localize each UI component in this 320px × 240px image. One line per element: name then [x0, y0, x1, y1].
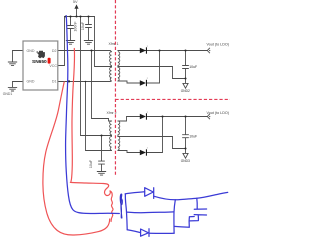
svg-text:Xfmr 1: Xfmr 1: [109, 42, 119, 46]
transformer Xfmr2: [110, 121, 120, 150]
svg-text:SN650: SN650: [32, 59, 47, 65]
wire sketch small box: [174, 217, 194, 228]
capacitor C3 10uF at Xfmr2 center tap: [97, 136, 105, 176]
TI logo: [37, 51, 45, 59]
wire Xfmr2 sec center tap to GND3 node: [118, 137, 186, 149]
svg-text:5V: 5V: [73, 0, 78, 4]
capacitor sketch C6: [190, 198, 207, 221]
svg-text:GND: GND: [27, 79, 35, 83]
svg-text:D2: D2: [52, 49, 57, 53]
wire 5V bus: [65, 16, 95, 18]
diode sketch D8: [141, 229, 149, 237]
svg-text:VCC: VCC: [49, 64, 57, 68]
wire sketch left vertical: [125, 194, 127, 230]
ground GND2 arrow: [183, 79, 188, 89]
terminal Vout1: [207, 48, 209, 53]
svg-text:10uF: 10uF: [89, 159, 93, 168]
junction dots primary side: [65, 15, 103, 136]
wire Xfmr2 sec top to Vout: [118, 117, 207, 122]
wire sketch middle horizontal right part: [127, 211, 174, 214]
svg-text:GND3: GND3: [181, 159, 190, 163]
secondary section 1: [118, 48, 210, 88]
ground GND3 arrow: [183, 149, 188, 159]
svg-text:GND2: GND2: [181, 89, 190, 93]
secondary section 2: [118, 114, 210, 158]
svg-text:10uF: 10uF: [189, 65, 197, 69]
wire sketch top: [125, 192, 145, 194]
wire sketch top right: [154, 192, 228, 199]
svg-text:GND: GND: [27, 49, 35, 53]
diode D5: [140, 113, 147, 119]
svg-text:100nF: 100nF: [74, 21, 78, 32]
svg-text:D1: D1: [52, 79, 57, 83]
diode sketch D7: [145, 188, 154, 199]
blue annotation end scribble: [120, 194, 122, 218]
transformer Xfmr1: [110, 52, 120, 81]
wire D2 branch down to Xfmr2 primary top: [92, 51, 112, 122]
svg-text:10uF: 10uF: [81, 21, 85, 30]
capacitor C2 10uF input: [84, 17, 92, 45]
wire bus to Xfmr1 primary center tap: [95, 17, 112, 67]
capacitor C1 100nF: [66, 17, 74, 45]
svg-text:10uF: 10uF: [189, 135, 197, 139]
diode D3: [140, 47, 147, 53]
terminal Vout2: [207, 114, 209, 119]
wire blue annotation arrow line: [66, 16, 120, 214]
wire sketch bottom right: [150, 232, 174, 234]
svg-text:Vout (to LDO): Vout (to LDO): [206, 111, 229, 115]
capacitor C4 10uF out1: [183, 51, 189, 79]
wire Xfmr1 sec center tap to GND2 node: [118, 67, 186, 79]
wire bus branch down to Xfmr2 primary center tap: [81, 17, 112, 136]
svg-text:GND1: GND1: [3, 92, 13, 96]
wire Xfmr1 sec top to Vout: [118, 50, 207, 52]
wire red annotation left branch and loop: [43, 82, 110, 235]
capacitor C5 10uF out2: [183, 117, 189, 149]
diode D4: [140, 80, 147, 86]
ground (IC top-left GND pin): [8, 51, 23, 66]
tiny diode designator marks: [147, 46, 149, 149]
svg-text:Vout (to LDO): Vout (to LDO): [206, 43, 229, 47]
blue hand sketch: rectifier doodle: [125, 188, 228, 237]
wire sketch bottom: [127, 230, 140, 233]
op-amp U1 : transformer driver IC SN6505: [23, 41, 58, 90]
wire D2 to Xfmr1 primary top: [58, 51, 112, 52]
node isolation barrier (red dashed): [115, 0, 230, 176]
wire red annotation right branch: [71, 49, 113, 222]
wire sketch mid vertical: [174, 200, 175, 233]
wire VCC to bus: [58, 17, 65, 66]
node 5V supply arrow: [74, 4, 78, 16]
wire Xfmr2 sec bottom through diode up: [118, 117, 163, 153]
diode D6: [140, 149, 147, 155]
wire D1 to Xfmr1 primary bottom: [58, 80, 112, 83]
wire Xfmr1 sec bottom through diode up: [118, 51, 160, 84]
wire D1 branch down to Xfmr2 primary bottom: [86, 82, 112, 151]
ground GND1 (IC bottom-left pin): [8, 82, 23, 92]
